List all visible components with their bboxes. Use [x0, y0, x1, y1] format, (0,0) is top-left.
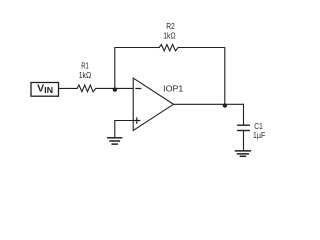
wire op-amp output	[174, 103, 244, 105]
svg-text:1kΩ: 1kΩ	[163, 30, 175, 40]
wire feedback right vertical	[178, 48, 225, 105]
svg-text:IOP1: IOP1	[163, 84, 183, 94]
wire feedback left vertical	[115, 48, 159, 89]
node A junction dot	[113, 87, 117, 91]
svg-text:IN: IN	[44, 86, 53, 95]
node B output junction dot	[223, 103, 227, 107]
Vin source box	[31, 83, 59, 97]
wire C1 to ground	[243, 131, 245, 151]
resistor R1	[77, 61, 96, 92]
ground (op-amp non-inverting input)	[108, 138, 122, 144]
ground (below C1)	[236, 151, 251, 156]
op-amp U1 IOP1	[133, 78, 183, 130]
wire non-inverting input to ground	[115, 121, 133, 138]
wire output down to C1	[243, 104, 245, 125]
wire R1 to inverting input	[96, 87, 133, 89]
svg-text:1kΩ: 1kΩ	[79, 70, 92, 80]
resistor R2	[159, 21, 178, 51]
capacitor C1	[238, 121, 265, 140]
wire Vin to R1	[59, 87, 78, 89]
svg-text:1µF: 1µF	[253, 130, 265, 140]
